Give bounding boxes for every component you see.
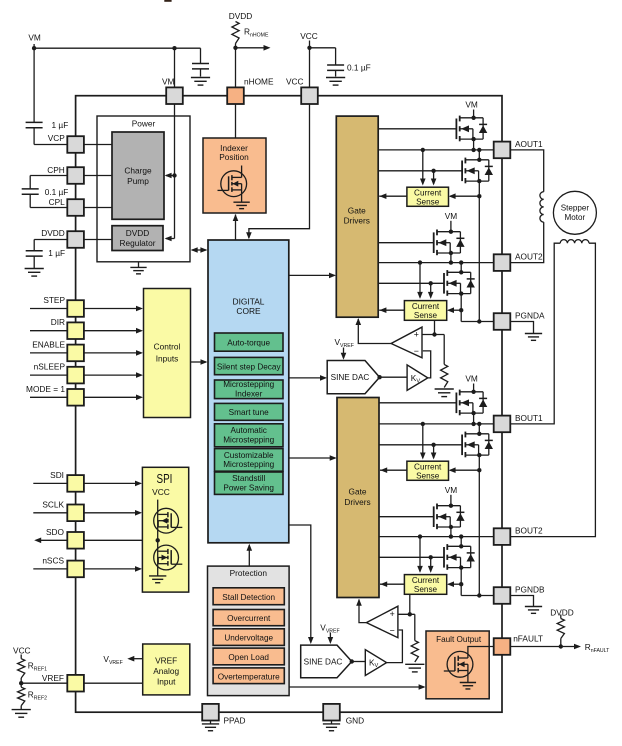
svg-text:ENABLE: ENABLE bbox=[32, 339, 65, 349]
svg-text:Power: Power bbox=[132, 118, 156, 128]
svg-text:+: + bbox=[414, 330, 419, 340]
svg-text:MODE = 1: MODE = 1 bbox=[26, 384, 65, 394]
svg-text:BOUT2: BOUT2 bbox=[515, 526, 543, 536]
svg-text:VCC: VCC bbox=[152, 487, 170, 497]
svg-text:DVDD: DVDD bbox=[126, 228, 150, 238]
svg-text:Input: Input bbox=[157, 677, 176, 687]
svg-text:VM: VM bbox=[28, 32, 41, 42]
svg-text:DVDD: DVDD bbox=[41, 228, 65, 238]
svg-text:Regulator: Regulator bbox=[120, 238, 156, 248]
svg-text:Stall Detection: Stall Detection bbox=[222, 593, 275, 602]
svg-text:Microstepping: Microstepping bbox=[223, 436, 274, 445]
svg-text:SINE DAC: SINE DAC bbox=[331, 373, 370, 382]
svg-text:Fault Output: Fault Output bbox=[436, 635, 482, 644]
svg-text:Sense: Sense bbox=[416, 198, 440, 207]
svg-text:Microstepping: Microstepping bbox=[223, 460, 274, 469]
svg-text:Gate: Gate bbox=[349, 487, 367, 497]
svg-text:AOUT1: AOUT1 bbox=[515, 139, 543, 149]
svg-text:Auto-torque: Auto-torque bbox=[227, 338, 270, 347]
svg-text:Current: Current bbox=[412, 302, 440, 311]
svg-text:DVDD: DVDD bbox=[550, 607, 574, 617]
svg-text:Motor: Motor bbox=[565, 213, 586, 222]
svg-text:SDO: SDO bbox=[46, 527, 65, 537]
svg-text:Undervoltage: Undervoltage bbox=[224, 634, 273, 643]
svg-text:Stepper: Stepper bbox=[561, 203, 590, 212]
svg-text:nFAULT: nFAULT bbox=[513, 634, 543, 644]
svg-text:Gate: Gate bbox=[348, 205, 366, 215]
svg-text:VM: VM bbox=[162, 77, 175, 87]
svg-text:DVDD: DVDD bbox=[229, 11, 253, 21]
svg-text:VM: VM bbox=[445, 211, 458, 221]
svg-text:−: − bbox=[414, 346, 419, 356]
svg-text:AOUT2: AOUT2 bbox=[515, 252, 543, 262]
svg-text:Sense: Sense bbox=[414, 311, 438, 320]
svg-text:Position: Position bbox=[219, 152, 249, 162]
svg-text:CPL: CPL bbox=[49, 197, 66, 207]
svg-text:Customizable: Customizable bbox=[224, 451, 274, 460]
svg-text:nSLEEP: nSLEEP bbox=[34, 362, 66, 372]
svg-text:Microstepping: Microstepping bbox=[223, 380, 274, 389]
svg-text:BOUT1: BOUT1 bbox=[515, 413, 543, 423]
svg-text:CORE: CORE bbox=[236, 306, 261, 316]
svg-text:VM: VM bbox=[445, 485, 458, 495]
svg-text:Silent step Decay: Silent step Decay bbox=[217, 362, 282, 371]
svg-text:PPAD: PPAD bbox=[224, 716, 246, 726]
svg-text:nHOME: nHOME bbox=[244, 77, 274, 87]
svg-text:DIR: DIR bbox=[51, 317, 65, 327]
svg-text:CPH: CPH bbox=[47, 165, 65, 175]
svg-text:PGNDB: PGNDB bbox=[515, 584, 545, 594]
svg-text:Standstill: Standstill bbox=[232, 474, 265, 483]
svg-text:Automatic: Automatic bbox=[230, 426, 266, 435]
svg-text:Charge: Charge bbox=[124, 165, 152, 175]
svg-text:VCC: VCC bbox=[286, 77, 304, 87]
svg-text:Smart tune: Smart tune bbox=[229, 408, 269, 417]
svg-text:SPI: SPI bbox=[157, 471, 173, 486]
svg-text:STEP: STEP bbox=[43, 295, 65, 305]
svg-text:0.1 µF: 0.1 µF bbox=[45, 187, 69, 197]
svg-text:Overtemperature: Overtemperature bbox=[218, 672, 280, 681]
svg-text:Indexer: Indexer bbox=[235, 390, 263, 399]
svg-text:VM: VM bbox=[465, 100, 478, 110]
svg-text:VREF: VREF bbox=[155, 655, 177, 665]
svg-text:Inputs: Inputs bbox=[156, 354, 179, 364]
svg-text:PGNDA: PGNDA bbox=[515, 310, 545, 320]
svg-text:SCLK: SCLK bbox=[42, 499, 64, 509]
svg-text:1 µF: 1 µF bbox=[52, 120, 69, 130]
svg-text:−: − bbox=[390, 625, 395, 635]
svg-text:1 µF: 1 µF bbox=[48, 248, 65, 258]
svg-text:Pump: Pump bbox=[127, 176, 149, 186]
svg-text:Sense: Sense bbox=[416, 472, 440, 481]
svg-text:VCC: VCC bbox=[300, 31, 318, 41]
svg-text:nSCS: nSCS bbox=[42, 555, 64, 565]
svg-text:Current: Current bbox=[414, 462, 442, 471]
svg-text:Power Saving: Power Saving bbox=[223, 483, 274, 492]
svg-text:DIGITAL: DIGITAL bbox=[233, 297, 265, 307]
svg-text:Current: Current bbox=[412, 576, 440, 585]
svg-text:Open Load: Open Load bbox=[228, 653, 269, 662]
svg-text:Overcurrent: Overcurrent bbox=[227, 614, 271, 623]
svg-text:VCC: VCC bbox=[13, 645, 31, 655]
svg-text:VM: VM bbox=[465, 374, 478, 384]
svg-text:Current: Current bbox=[414, 188, 442, 197]
svg-text:+: + bbox=[390, 609, 395, 619]
svg-text:Sense: Sense bbox=[414, 585, 438, 594]
svg-text:Drivers: Drivers bbox=[344, 216, 370, 226]
svg-text:Analog: Analog bbox=[153, 666, 179, 676]
svg-text:GND: GND bbox=[346, 716, 364, 726]
svg-text:Control: Control bbox=[154, 342, 181, 352]
svg-text:SDI: SDI bbox=[50, 470, 64, 480]
svg-text:Drivers: Drivers bbox=[344, 497, 370, 507]
svg-text:VCP: VCP bbox=[48, 133, 66, 143]
svg-text:VREF: VREF bbox=[42, 673, 64, 683]
svg-text:Protection: Protection bbox=[230, 568, 268, 578]
svg-text:0.1 µF: 0.1 µF bbox=[347, 63, 371, 73]
svg-text:SINE DAC: SINE DAC bbox=[304, 658, 343, 667]
